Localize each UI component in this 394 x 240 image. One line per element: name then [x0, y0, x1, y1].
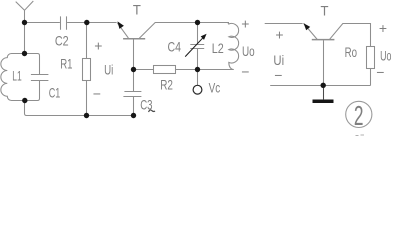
junction dot base node [131, 67, 136, 72]
resistor Ro [367, 47, 375, 69]
artifact marks below circle [356, 134, 365, 137]
svg-text:Uo: Uo [380, 48, 391, 64]
wire C1 top lead [25, 54, 40, 75]
svg-text:C1: C1 [49, 85, 61, 101]
svg-text:−: − [274, 67, 282, 83]
svg-text:C4: C4 [168, 39, 182, 55]
wire C3 bottom lead [133, 97, 135, 116]
svg-text:2: 2 [354, 100, 364, 131]
artifact scribble under C3 [149, 110, 156, 112]
capacitor C4 plates [190, 45, 204, 49]
capacitor C4 arrowhead [201, 34, 207, 40]
transistor T2 base bar [312, 39, 335, 41]
svg-text:Ui: Ui [273, 52, 284, 68]
transistor T2 base stem [323, 40, 325, 85]
inductor L1 [1, 54, 25, 101]
ground bar [313, 100, 334, 104]
wire Vc lead [197, 70, 199, 86]
resistor R1 [83, 59, 91, 81]
transistor T1 collector and wire to node [139, 23, 229, 39]
wire R1 bottom lead [86, 81, 88, 116]
wire base node to R2 [134, 69, 154, 71]
transistor T1 base bar [123, 38, 145, 40]
inductor L2 [198, 23, 239, 70]
transistor T1 emitter line [117, 23, 128, 38]
svg-text:Uo: Uo [242, 43, 255, 59]
transistor T1 emitter arrowhead [118, 21, 124, 29]
transistor T2 emitter line [304, 23, 318, 39]
svg-text:−: − [93, 86, 101, 102]
svg-text:−: − [376, 64, 384, 80]
svg-text:L2: L2 [212, 40, 224, 56]
wire L2 bottom to node [198, 69, 234, 71]
svg-text:+: + [241, 15, 249, 31]
junction dot base ground [321, 83, 326, 88]
junction dot L1 C1 bottom [22, 98, 27, 103]
junction dot rail R1 [84, 113, 89, 118]
capacitor C3 [123, 92, 141, 97]
svg-text:T: T [321, 2, 329, 18]
svg-text:R2: R2 [160, 76, 173, 92]
wire R2 to node [176, 69, 198, 71]
junction dot antenna [22, 20, 27, 25]
svg-text:Vc: Vc [209, 80, 221, 96]
wire ground stem [323, 86, 325, 100]
wire C2 to emitter [67, 22, 117, 24]
svg-text:+: + [275, 26, 283, 42]
svg-text:−: − [241, 64, 249, 80]
wire R1 top lead [86, 23, 88, 59]
terminal Vc circle [193, 85, 202, 94]
svg-text:Ro: Ro [345, 44, 358, 60]
wire C1 bottom lead [25, 81, 40, 101]
wire top rail left [25, 22, 60, 24]
junction dot L1 C1 top [22, 51, 27, 56]
antenna [16, 1, 34, 23]
wire C3 top lead [133, 70, 135, 92]
wire ground drop left [25, 101, 134, 116]
svg-text:L1: L1 [12, 68, 22, 84]
wire C4 bottom lead [197, 49, 199, 70]
transistor T2 emitter arrowhead [304, 23, 311, 30]
capacitor C1 [31, 75, 49, 81]
svg-text:+: + [379, 20, 387, 36]
capacitor C2 [61, 16, 67, 29]
svg-text:+: + [94, 38, 102, 54]
wire antenna to L1 top node [24, 23, 26, 54]
junction dot C4 top [195, 20, 200, 25]
wire C4 top lead [197, 23, 199, 45]
transistor T1 base stem [133, 39, 135, 69]
wire bottom rail right [270, 85, 370, 87]
figure number circle 2 [346, 101, 372, 127]
junction dot R2 C4 node [195, 67, 200, 72]
svg-text:Ui: Ui [104, 62, 113, 78]
junction dot rail C3 [131, 113, 136, 118]
svg-text:T: T [133, 2, 141, 18]
wire Ro bottom lead [370, 69, 372, 86]
junction dot R1 top [84, 20, 89, 25]
svg-text:R1: R1 [60, 56, 72, 72]
resistor R2 [154, 66, 176, 74]
wire right top emitter side [265, 23, 303, 25]
capacitor C4 adjust arrow [185, 36, 204, 56]
transistor T2 collector and wire to Ro [330, 24, 371, 47]
svg-text:C2: C2 [55, 33, 69, 49]
